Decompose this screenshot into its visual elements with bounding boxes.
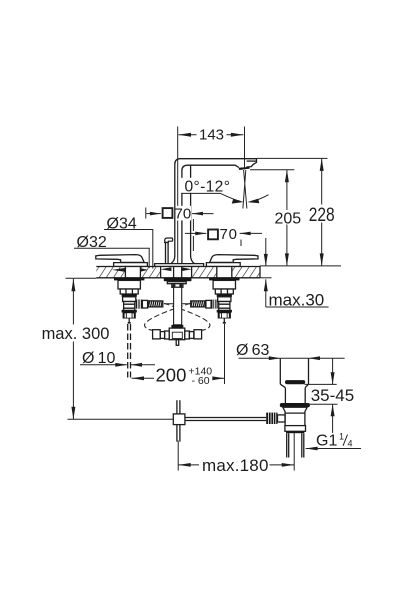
- dim 200 extension (right valve centerline): [224, 324, 226, 384]
- spout tip cap line: [247, 160, 257, 162]
- svg-text:max. 300: max. 300: [42, 325, 110, 343]
- G leader: [306, 448, 361, 450]
- left valve body: [123, 297, 136, 302]
- max30 lower line with arrow: [265, 279, 267, 307]
- dim 143 extension left: [177, 127, 179, 264]
- max300 line: [72, 279, 74, 419]
- drain lower section: [285, 426, 306, 432]
- left valve bonnet: [118, 280, 140, 289]
- stream lines: [243, 170, 247, 209]
- center flange: [164, 278, 192, 282]
- right lever base: [206, 263, 240, 267]
- svg-text:G1: G1: [316, 433, 337, 450]
- sq70 spout left arrow: [146, 213, 161, 215]
- dia32 leader: [74, 248, 149, 268]
- svg-text:35-45: 35-45: [311, 386, 354, 405]
- drain knob: [266, 413, 277, 424]
- svg-text:4: 4: [348, 438, 353, 448]
- right shank walls in deck: [217, 267, 232, 278]
- left valve block: [124, 302, 135, 311]
- dim 200 line left arrow: [132, 377, 155, 379]
- left valve bottom nut: [122, 310, 137, 313]
- tee right arm: [185, 331, 190, 339]
- angle arc right arrow: [247, 199, 259, 204]
- tick under right handle dim: [240, 240, 242, 247]
- dim 228 extension: [257, 157, 328, 159]
- svg-text:Ø34: Ø34: [107, 216, 137, 233]
- sq70 handle box: [208, 230, 218, 240]
- deck top extension right: [260, 265, 341, 267]
- tee left arm: [165, 331, 170, 339]
- tee body: [169, 328, 185, 340]
- dia63 extensions: [280, 359, 308, 385]
- spout outer profile: [175, 159, 257, 257]
- dia63 dim line: [239, 357, 345, 359]
- svg-text:- 60: - 60: [192, 375, 210, 387]
- svg-text:70: 70: [175, 206, 192, 223]
- dia34 arrows at spout base: [161, 267, 172, 271]
- right valve collar band: [217, 294, 232, 297]
- left valve flange: [114, 278, 144, 281]
- left valve nipple knurl: [136, 300, 143, 309]
- center shank walls in deck: [174, 267, 182, 278]
- angle leader arrow: [232, 199, 244, 204]
- spout base plate: [155, 264, 204, 267]
- svg-text:max.30: max.30: [269, 291, 325, 310]
- dim 143 arrow right: [231, 133, 244, 137]
- deck segment 2: [141, 267, 161, 278]
- right valve block: [219, 302, 230, 311]
- center hole edges: [161, 267, 192, 278]
- dim max180 line: [178, 464, 199, 466]
- drain neck: [285, 388, 305, 403]
- deck right edge: [259, 266, 261, 278]
- svg-text:205: 205: [274, 211, 301, 228]
- dim 228 line: [321, 158, 323, 266]
- pull rod knob: [165, 238, 173, 243]
- right valve flange: [209, 278, 239, 281]
- right valve hex: [215, 289, 233, 294]
- T joint block: [173, 414, 185, 425]
- dim 205 extension: [250, 169, 294, 171]
- dia10 leader arrow: [80, 364, 127, 366]
- angle leader underline: [182, 193, 241, 201]
- deck bottom extension right: [260, 277, 272, 279]
- svg-text:200: 200: [156, 365, 187, 386]
- right valve bottom nut: [217, 310, 232, 313]
- svg-text:1: 1: [339, 431, 344, 441]
- deck segment 3: [192, 267, 218, 278]
- drain tailpipe: [287, 433, 304, 457]
- max30 upper line: [265, 238, 267, 266]
- sq70 text whiteout: [176, 206, 191, 221]
- drain body: [283, 407, 307, 425]
- dia34 leader: [104, 230, 153, 269]
- sq70 handle left arrow: [185, 232, 206, 234]
- deck bottom line: [96, 277, 260, 279]
- dim 143 line: [179, 134, 244, 136]
- svg-text:70: 70: [220, 226, 238, 243]
- right valve nipple hex: [206, 300, 211, 308]
- drain knob stem: [278, 415, 286, 422]
- center collar: [172, 284, 183, 288]
- left valve hex: [120, 289, 138, 294]
- spout right wall: [190, 165, 192, 256]
- spout base flare: [171, 256, 194, 264]
- tee bottom stub: [176, 340, 179, 346]
- dim 143 arrow left: [179, 133, 192, 137]
- right valve hose braid: [191, 301, 206, 307]
- left lever: [96, 255, 144, 263]
- rod level extension: [68, 418, 174, 420]
- sq70 spout right arrow: [192, 213, 214, 215]
- pull rod above deck: [166, 242, 169, 264]
- angle text whiteout: [181, 178, 231, 193]
- DIMS: [42, 126, 361, 475]
- left valve nipple hex: [142, 300, 147, 308]
- drain cap: [285, 380, 305, 384]
- dim 205 arrows: [285, 170, 289, 183]
- svg-text:0°-12°: 0°-12°: [185, 178, 231, 195]
- dim 35-45 upper: [332, 358, 334, 384]
- drain shoulder: [280, 384, 308, 388]
- deck bottom extension left: [66, 277, 97, 279]
- left valve hose braid: [148, 301, 163, 307]
- center lip: [167, 282, 186, 284]
- right valve nipple knurl: [211, 300, 218, 309]
- dia32 arrows at left valve: [112, 268, 125, 272]
- left lever base: [114, 263, 148, 267]
- sq70 handle right arrow: [240, 232, 262, 234]
- center shank tube: [174, 287, 182, 325]
- left shank walls in deck: [125, 267, 140, 278]
- dim 35-45 lower: [304, 403, 338, 405]
- svg-text:143: 143: [199, 126, 224, 143]
- max30 underline: [266, 306, 329, 308]
- tee collar: [171, 325, 183, 328]
- deck segment 1: [96, 267, 125, 278]
- svg-text:Ø 63: Ø 63: [236, 342, 270, 359]
- hose dashed left-to-right: [164, 303, 210, 330]
- right valve body: [218, 297, 231, 302]
- spout inner wall: [182, 165, 239, 263]
- horizontal actuating rod: [185, 418, 266, 421]
- dim 205 line: [286, 170, 288, 266]
- left valve collar band: [122, 294, 137, 297]
- dim max180 extensions: [177, 441, 179, 471]
- angle arc right: [251, 195, 269, 202]
- deck segment 4: [232, 267, 260, 278]
- dim 228 arrows: [320, 158, 324, 171]
- sq70 spout box: [163, 208, 173, 218]
- right lever: [210, 255, 258, 263]
- svg-text:228: 228: [309, 204, 335, 226]
- pull rod dashed: [128, 324, 131, 378]
- dim 143 extension right: [244, 127, 246, 170]
- T pull rod vertical: [177, 400, 180, 441]
- hose dashed right-to-left: [145, 303, 191, 330]
- dia10 right arrow: [131, 364, 155, 366]
- deck top line: [96, 266, 260, 268]
- drain bottom band: [286, 431, 304, 433]
- right valve bonnet: [213, 280, 235, 289]
- aerator bar: [239, 167, 250, 170]
- svg-text:max.180: max.180: [202, 456, 269, 475]
- nipple axis lines: [164, 303, 191, 305]
- dim 200 right arrow: [214, 377, 225, 379]
- drain flange: [280, 403, 310, 407]
